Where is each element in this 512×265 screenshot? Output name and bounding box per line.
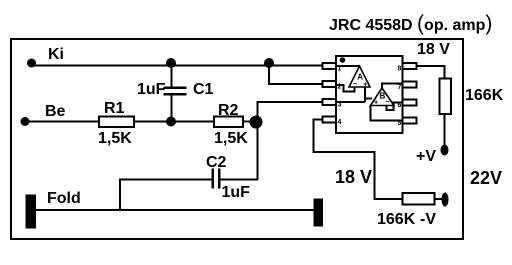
- svg-text:Ki: Ki: [48, 46, 64, 63]
- capacitor C1 wire top: [171, 64, 173, 87]
- pin 8 stub: [403, 63, 417, 69]
- op-amp A triangle: [349, 66, 370, 87]
- pin 6 stub: [403, 100, 417, 106]
- wire pin 2 to op-amp A inverting input: [336, 85, 355, 92]
- op-amp B triangle: [371, 88, 395, 106]
- svg-text:−: −: [386, 99, 390, 106]
- node on Be line at C1: [166, 117, 176, 127]
- terminal bar left: [26, 195, 37, 229]
- wire R1 to R2: [134, 121, 214, 123]
- svg-text:-V: -V: [420, 211, 436, 228]
- svg-text:C1: C1: [193, 81, 214, 98]
- svg-text:+: +: [363, 81, 367, 88]
- wire Be to R1: [25, 121, 100, 123]
- terminal Ki dot: [27, 59, 36, 68]
- wire op-amp B output to pin 7: [382, 84, 403, 89]
- svg-text:18 V: 18 V: [335, 167, 372, 187]
- svg-text:A: A: [357, 73, 363, 82]
- svg-text:R1: R1: [104, 100, 125, 117]
- resistor 166K horizontal: [403, 193, 435, 205]
- op-amp U1 body: [336, 56, 403, 133]
- pin 5 stub: [403, 118, 417, 124]
- svg-text:1,5K: 1,5K: [98, 130, 132, 147]
- terminal +V dot: [441, 145, 449, 156]
- wire pin 1 to op-amp A output: [336, 65, 360, 67]
- svg-text:+: +: [374, 99, 378, 106]
- node on Ki line at pin2 branch: [264, 58, 274, 68]
- wire C2 branch down to Fold line: [119, 180, 121, 211]
- wire pin 4 to -V resistor: [314, 120, 403, 200]
- svg-text:22V: 22V: [470, 168, 502, 188]
- wire node up to pin 3: [258, 102, 325, 122]
- node on Ki line at C1: [166, 58, 176, 68]
- wire Fold: [36, 209, 314, 211]
- svg-text:1uF: 1uF: [137, 81, 166, 98]
- wire node down to C2 line: [257, 122, 259, 180]
- svg-text:Fold: Fold: [47, 190, 81, 207]
- svg-text:+V: +V: [416, 148, 436, 165]
- terminal Be dot: [21, 117, 30, 126]
- pin 7 stub: [403, 82, 417, 88]
- svg-text:C2: C2: [206, 154, 227, 171]
- wire resistor to -V: [435, 198, 443, 200]
- wire pin 6 to op-amp B inverting input: [387, 103, 404, 111]
- svg-text:166K: 166K: [377, 211, 416, 228]
- svg-text:1,5K: 1,5K: [214, 130, 248, 147]
- node big junction: [250, 116, 263, 129]
- wire pin 3 to op-amp A plus: [336, 101, 365, 103]
- svg-text:7: 7: [398, 84, 402, 91]
- svg-text:−: −: [353, 81, 357, 88]
- capacitor C2 right wire: [219, 179, 258, 181]
- terminal -V dot: [442, 193, 449, 207]
- svg-text:166K: 166K: [465, 87, 504, 104]
- resistor 166K vertical: [440, 79, 452, 115]
- svg-text:1uF: 1uF: [222, 184, 251, 201]
- capacitor C2 plates: [211, 169, 214, 189]
- svg-text:8: 8: [398, 66, 402, 73]
- wire op-amp B plus to pin 5: [371, 106, 404, 121]
- pin 4 stub: [323, 117, 337, 123]
- wire Ki to pin 1: [31, 65, 324, 67]
- svg-text:4: 4: [338, 119, 342, 126]
- svg-text:R2: R2: [218, 102, 239, 119]
- resistor R1: [99, 117, 134, 128]
- op-amp U1 index dot: [340, 57, 346, 63]
- wire branch down to pin 2: [269, 64, 324, 84]
- terminal bar right: [314, 199, 324, 227]
- resistor R2: [214, 117, 243, 128]
- svg-text:Be: Be: [45, 103, 66, 120]
- wire branch to op-amp B: [365, 98, 372, 100]
- capacitor C1 wire bottom: [171, 94, 173, 121]
- wire pin 8 to resistor: [417, 66, 445, 79]
- svg-text:18 V: 18 V: [417, 41, 450, 58]
- wire resistor to +V: [444, 114, 446, 146]
- capacitor C1 plates: [164, 86, 187, 89]
- border frame: [11, 39, 463, 239]
- wire R2 to node: [243, 121, 256, 123]
- wire op-amp A plus input down: [364, 88, 366, 103]
- pin 1 stub: [323, 63, 337, 69]
- pin 3 stub: [323, 99, 337, 105]
- pin 2 stub: [323, 81, 337, 87]
- capacitor C2 left wire: [119, 179, 212, 181]
